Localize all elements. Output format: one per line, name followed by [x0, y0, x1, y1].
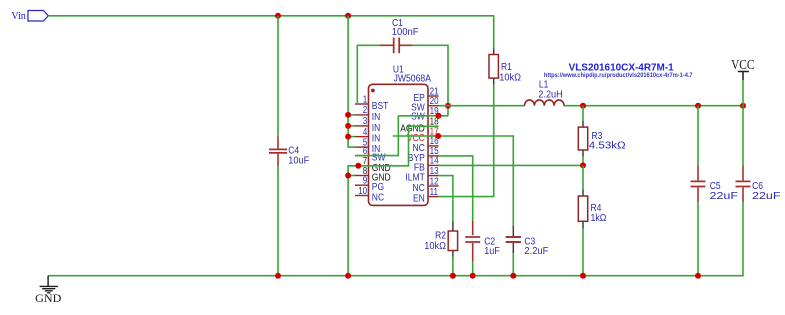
- svg-text:22uF: 22uF: [752, 191, 781, 202]
- wire ground rail: [48, 202, 743, 276]
- wire top rail down to C4: [277, 16, 279, 137]
- capacitor C4 plates: [269, 149, 287, 153]
- capacitor C4 bottom lead: [277, 154, 279, 166]
- svg-text:10kΩ: 10kΩ: [499, 73, 521, 84]
- capacitor C2 bottom lead: [472, 243, 474, 261]
- pin 1 BST of U1: [355, 103, 369, 105]
- node Vin terminal: [28, 11, 48, 22]
- junction ground rail / C5: [695, 273, 701, 279]
- pin 12 NC of U1: [428, 185, 439, 187]
- svg-text:2: 2: [363, 105, 368, 116]
- resistor R2 bottom lead: [452, 251, 454, 257]
- pin 13 ILMT of U1: [428, 175, 439, 177]
- svg-text:1kΩ: 1kΩ: [591, 213, 607, 224]
- svg-text:100nF: 100nF: [392, 27, 419, 38]
- resistor R1: [489, 55, 498, 79]
- svg-text:2.2uF: 2.2uF: [524, 246, 548, 257]
- pin 8 GND of U1: [355, 175, 369, 177]
- wire EN pin 11 up to R1: [439, 85, 494, 197]
- svg-text:NC: NC: [413, 183, 426, 194]
- pin 15 BYP of U1: [428, 155, 439, 157]
- resistor R3: [578, 127, 587, 150]
- wire Vin top rail to R1: [48, 16, 493, 49]
- pin 2 IN of U1: [355, 114, 369, 116]
- pin 14 FB of U1: [428, 164, 439, 166]
- svg-text:IN: IN: [372, 123, 381, 134]
- wire R3 to FB node: [582, 157, 584, 166]
- pin 6 SW of U1: [355, 155, 369, 157]
- junction ground rail / C2: [470, 273, 476, 279]
- pin 4 IN of U1: [355, 136, 369, 138]
- wire SW pin6 riser: [355, 116, 398, 156]
- svg-text:JW5068A: JW5068A: [394, 74, 432, 85]
- svg-text:4: 4: [363, 127, 368, 138]
- capacitor C3 plates: [506, 237, 521, 242]
- resistor R1 bottom lead: [493, 78, 495, 84]
- capacitor C6 bottom lead: [742, 188, 744, 203]
- wire FB pin 14 to divider: [439, 164, 584, 166]
- svg-text:SW: SW: [411, 111, 425, 122]
- pin 19 SW of U1: [428, 115, 439, 117]
- svg-text:2.2uH: 2.2uH: [538, 90, 563, 101]
- resistor R1 top lead: [493, 49, 495, 55]
- IC U1 pin-1 mark: [371, 89, 375, 93]
- svg-text:ILMT: ILMT: [405, 173, 425, 184]
- capacitor C6 top lead: [742, 166, 744, 181]
- svg-text:NC: NC: [372, 193, 385, 204]
- wire VOUT rail to C5: [697, 106, 699, 166]
- svg-text:R2: R2: [435, 231, 446, 242]
- resistor R4 top lead: [582, 190, 584, 197]
- wire R4 to ground rail: [582, 229, 584, 276]
- capacitor C2 plates: [465, 237, 480, 242]
- pin 5 IN of U1: [355, 146, 369, 148]
- ground symbol GND: [40, 276, 58, 293]
- pin 10 NC of U1: [355, 195, 369, 197]
- junction GND pin 7: [355, 163, 361, 169]
- pin 3 IN of U1: [355, 125, 369, 127]
- junction top rail / IN pins: [345, 13, 351, 19]
- svg-text:22uF: 22uF: [710, 191, 739, 202]
- pin 21 EP of U1: [428, 95, 439, 97]
- pin 16 NC of U1: [428, 145, 439, 147]
- resistor R2 top lead: [452, 221, 454, 231]
- svg-text:IN: IN: [372, 112, 381, 123]
- svg-text:IN: IN: [372, 134, 381, 145]
- junction top rail / C4: [275, 13, 281, 19]
- wire C4 to ground rail: [277, 166, 279, 276]
- svg-text:L1: L1: [539, 79, 549, 90]
- pin 20 SW of U1: [428, 105, 439, 107]
- capacitor C2 top lead: [472, 221, 474, 236]
- pin 11 EN of U1: [428, 196, 439, 198]
- wire FB node to R4: [582, 165, 584, 189]
- svg-text:R1: R1: [501, 62, 512, 73]
- capacitor C5 plates: [691, 181, 706, 186]
- wire C2 to ground rail: [472, 261, 474, 276]
- svg-text:3: 3: [363, 116, 368, 127]
- capacitor C3 bottom lead: [512, 243, 514, 253]
- power symbol VCC: [742, 80, 744, 106]
- junction SW net / pin 20 rail: [445, 103, 451, 109]
- wire SW tie pin19: [398, 115, 448, 117]
- inductor L1: [525, 100, 565, 106]
- wire ILMT pin 13 to R2: [439, 176, 453, 222]
- junction ground rail / R4: [580, 273, 586, 279]
- junction ground rail / C3: [510, 273, 516, 279]
- wire top rail down to IN pins 2-5: [348, 16, 355, 147]
- junction GND pin 8: [345, 173, 351, 179]
- svg-text:GND: GND: [35, 291, 62, 305]
- wire stub to pin 3: [348, 125, 355, 127]
- wire C1 left to BST pin 1: [357, 45, 379, 104]
- pin 18 AGND of U1: [428, 125, 439, 127]
- junction IN pin 4: [345, 134, 351, 140]
- wire BYP pin 15 to C2: [439, 156, 473, 221]
- wire stub to pin 2: [348, 114, 355, 116]
- junction VOUT rail / R3: [580, 103, 586, 109]
- capacitor C6 plates: [736, 181, 751, 186]
- wire VOUT rail to R3: [582, 106, 584, 121]
- svg-text:11: 11: [430, 187, 438, 198]
- wire VOUT rail to C6: [742, 106, 744, 166]
- svg-text:1uF: 1uF: [484, 246, 500, 257]
- svg-text:1: 1: [363, 94, 368, 105]
- wire VCC pin 17 to C3: [393, 136, 514, 226]
- wire SW rail to L1: [439, 105, 525, 107]
- junction IN pin 3: [345, 123, 351, 129]
- svg-text:BST: BST: [372, 101, 389, 112]
- capacitor C5 bottom lead: [697, 188, 699, 203]
- svg-text:10kΩ: 10kΩ: [424, 241, 446, 252]
- junction VCC pin 17: [435, 133, 441, 139]
- IC U1 JW5068A body: [369, 84, 429, 205]
- capacitor C1 plates: [394, 38, 400, 54]
- svg-text:12: 12: [430, 176, 439, 187]
- wire C1 right down to SW net: [413, 45, 449, 116]
- junction IN pin 2: [345, 112, 351, 118]
- junction SW pin 19: [436, 113, 442, 119]
- capacitor C3 top lead: [512, 226, 514, 236]
- junction VOUT rail / C6 / VCC: [740, 103, 746, 109]
- svg-text:4.53kΩ: 4.53kΩ: [589, 141, 626, 152]
- wire AGND pin18 to GND pins and ground rail: [348, 126, 438, 275]
- wire stub GND pin 8: [348, 175, 355, 177]
- resistor R4 bottom lead: [582, 221, 584, 228]
- svg-text:EN: EN: [413, 194, 425, 205]
- junction ground rail / R2: [450, 273, 456, 279]
- junction VOUT rail / C5: [695, 103, 701, 109]
- junction ground rail / C4: [275, 273, 281, 279]
- svg-text:VCC: VCC: [731, 57, 754, 72]
- capacitor C4 top lead: [277, 137, 279, 149]
- wire R2 to ground rail: [452, 257, 454, 276]
- pin 9 PG of U1: [355, 184, 369, 186]
- resistor R4: [578, 196, 587, 221]
- capacitor C5 top lead: [697, 166, 699, 181]
- resistor R3 top lead: [582, 121, 584, 127]
- pin 17 VCC of U1: [428, 135, 439, 137]
- wire C5 to ground rail: [697, 202, 699, 276]
- pin 7 GND of U1: [355, 165, 369, 167]
- resistor R2: [448, 231, 457, 251]
- svg-text:Vin: Vin: [11, 10, 26, 22]
- wire stub to pin 4: [348, 136, 355, 138]
- capacitor C1 leads: [379, 44, 412, 46]
- wire C3 to ground rail: [512, 253, 514, 276]
- junction FB node: [580, 162, 586, 168]
- wire L1 to VCC rail: [564, 105, 743, 107]
- resistor R3 bottom lead: [582, 150, 584, 157]
- svg-text:13: 13: [430, 166, 439, 177]
- junction ground rail / GND pins: [345, 273, 351, 279]
- svg-text:https://www.chipdip.ru/product: https://www.chipdip.ru/product/vls201610…: [544, 72, 693, 79]
- svg-text:10: 10: [358, 186, 367, 197]
- svg-text:10uF: 10uF: [288, 155, 309, 166]
